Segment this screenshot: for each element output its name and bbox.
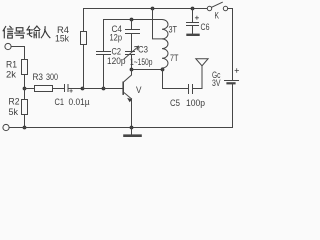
node junction C6/supply rail: [191, 7, 195, 11]
wire C4 to C3: [131, 34, 133, 52]
transistor V collector lead: [124, 70, 132, 83]
wire R1 bottom to base rail: [24, 75, 26, 89]
wire tank bottom rail: [132, 69, 163, 71]
label 信号输入 (hand drawn strokes): [3, 26, 50, 38]
svg-text:5k: 5k: [9, 107, 19, 118]
node junction coil bottom: [161, 68, 165, 72]
wire base rail left: [25, 88, 35, 90]
wire junction to C2 junction: [83, 88, 104, 90]
svg-text:0.01µ: 0.01µ: [69, 97, 90, 108]
wire C5 to antenna stem: [193, 66, 203, 89]
wire tank top rail: [104, 19, 163, 21]
node junction emitter/ground rail: [130, 126, 134, 130]
battery GB long plate: [225, 80, 239, 82]
antenna: [196, 59, 208, 66]
wire emitter down to ground rail: [131, 99, 133, 128]
wire R2 bottom to ground rail: [24, 115, 26, 128]
transformer coil 3T + 7T: [162, 20, 168, 69]
capacitor C2 stub top: [103, 20, 105, 52]
node junction collector/tank bottom: [130, 68, 134, 72]
capacitor C1: [65, 85, 69, 92]
svg-text:V: V: [136, 85, 142, 96]
svg-text:K: K: [215, 11, 220, 21]
wire top supply rail: [84, 8, 208, 10]
wire C3 bottom stub: [131, 55, 133, 70]
capacitor C2: [97, 52, 111, 55]
node junction R4/base wire: [81, 87, 85, 91]
svg-text:15k: 15k: [55, 34, 69, 45]
capacitor C3 (variable): [126, 52, 135, 55]
svg-text:3T: 3T: [169, 25, 178, 36]
svg-text:1~150p: 1~150p: [130, 57, 153, 68]
wire R1 junction down to R2: [24, 89, 26, 100]
resistor R1: [22, 60, 28, 75]
resistor R3: [35, 86, 53, 92]
wire switch to battery top: [228, 9, 233, 81]
wire supply to coil tap: [153, 9, 163, 39]
svg-text:300: 300: [46, 72, 58, 83]
C6 chassis ground bar: [188, 34, 199, 36]
switch K right contact: [223, 6, 227, 10]
capacitor C6 stub: [192, 9, 194, 23]
battery polarity plus: [235, 69, 239, 73]
svg-text:C6: C6: [201, 22, 210, 33]
capacitor C5: [189, 85, 193, 94]
resistor R2: [22, 100, 28, 115]
svg-text:120p: 120p: [107, 56, 126, 67]
wire C6 to chassis ground: [192, 26, 194, 35]
transistor V emitter arrowhead: [127, 98, 132, 102]
node junction R2/ground rail: [23, 126, 27, 130]
svg-text:3V: 3V: [212, 78, 221, 89]
svg-text:12p: 12p: [110, 33, 123, 44]
ground symbol below rail: [131, 128, 133, 136]
wire input to R1 top: [11, 47, 24, 60]
node: signal input terminal: [5, 43, 11, 49]
node junction supply/transformer tap: [151, 7, 155, 11]
wire to transistor base: [104, 88, 123, 90]
wire coil bottom to C5: [163, 70, 189, 89]
wire C1 to R4 junction: [68, 88, 83, 90]
svg-text:C3: C3: [138, 45, 148, 56]
wire C2 bottom stub: [103, 55, 105, 89]
C3 trimmer arrow: [124, 46, 139, 59]
capacitor C4 stub: [131, 20, 133, 30]
svg-text:R3: R3: [33, 72, 44, 83]
wire R3 to C1: [53, 88, 65, 90]
svg-text:100p: 100p: [186, 98, 205, 109]
wire coil bottom stub: [161, 68, 164, 70]
node: ground terminal: [3, 124, 9, 130]
C1 polarity plus: [70, 90, 73, 93]
capacitor C4: [126, 30, 140, 34]
node junction C4/tank top: [130, 18, 134, 22]
wire R4 top stub from supply rail: [83, 9, 85, 32]
wire R4 bottom to base wire: [83, 45, 85, 89]
wire battery bottom to ground rail: [232, 85, 234, 128]
transistor V base bar: [122, 82, 124, 94]
svg-text:C1: C1: [55, 97, 65, 108]
resistor R4: [81, 32, 87, 45]
C6 polarity plus: [195, 16, 198, 19]
battery GB short plate: [228, 82, 235, 84]
svg-text:7T: 7T: [170, 53, 179, 64]
capacitor C6: [187, 23, 199, 26]
switch K lever: [212, 2, 223, 7]
switch K left contact: [207, 6, 211, 10]
node junction R1/R3: [23, 87, 27, 91]
node junction C2/base wire: [102, 87, 106, 91]
svg-text:C5: C5: [170, 98, 180, 109]
wire bottom ground rail: [9, 127, 232, 129]
transistor V emitter lead: [124, 92, 132, 99]
svg-text:2k: 2k: [6, 69, 16, 80]
